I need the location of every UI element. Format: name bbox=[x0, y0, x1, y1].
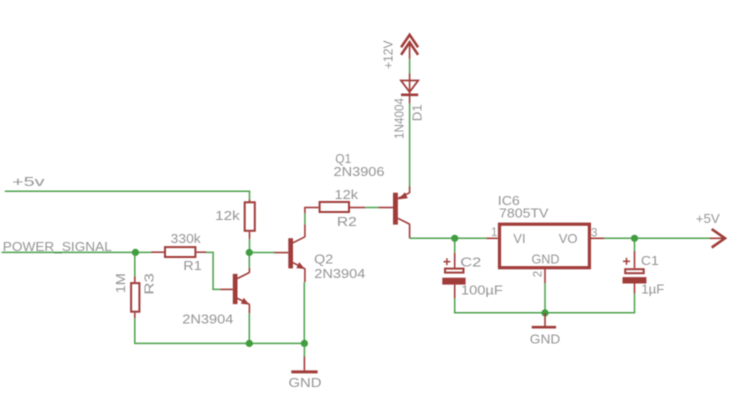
supply symbol +5V (right) bbox=[696, 211, 725, 248]
wire node down to C1 bbox=[634, 238, 636, 251]
wire +12V to diode bbox=[409, 59, 411, 74]
svg-text:+12V: +12V bbox=[381, 40, 396, 69]
svg-text:VI: VI bbox=[513, 231, 525, 246]
wire R2 to Q1 base bbox=[365, 207, 378, 209]
ground GND (left) bbox=[289, 357, 322, 391]
wire POWER_SIGNAL bbox=[2, 251, 152, 253]
svg-text:100µF: 100µF bbox=[461, 283, 503, 298]
pin 2 (GND) bbox=[544, 269, 546, 283]
IC6 7805TV voltage regulator bbox=[486, 193, 604, 283]
wire R1 to base of left transistor bbox=[206, 252, 220, 289]
node junction C2 on input wire bbox=[451, 235, 458, 242]
wire +5v rail bbox=[5, 191, 250, 199]
capacitor C1 1uF bbox=[623, 251, 665, 296]
wire junction down to R3 bbox=[134, 252, 136, 276]
ground GND (right) bbox=[530, 313, 561, 346]
node junction emitter T1 on rail bbox=[246, 340, 253, 347]
svg-text:2N3906: 2N3906 bbox=[334, 164, 385, 179]
svg-text:1N4004: 1N4004 bbox=[392, 98, 407, 139]
svg-text:R1: R1 bbox=[183, 258, 202, 273]
wire left transistor emitter to ground rail bbox=[248, 313, 250, 343]
resistor R1 330k bbox=[151, 231, 206, 273]
wire IC6 pin2 to ground rail bbox=[544, 283, 546, 313]
svg-text:2N3904: 2N3904 bbox=[182, 312, 233, 327]
wire Q1 collector to IC6 input bbox=[410, 237, 487, 239]
diode D1 1N4004 bbox=[392, 73, 425, 139]
svg-text:Q2: Q2 bbox=[314, 252, 333, 267]
capacitor C2 100uF bbox=[442, 253, 503, 298]
node junction GND on rail bbox=[541, 309, 548, 316]
svg-text:D1: D1 bbox=[409, 104, 424, 121]
wire Q2 emitter down to ground rail bbox=[303, 282, 305, 343]
svg-text:12k: 12k bbox=[215, 208, 240, 223]
wire node to Q2 base bbox=[249, 252, 274, 254]
wire rail to GND symbol bbox=[303, 343, 305, 356]
transistor T1 2N3904 (left) bbox=[182, 268, 249, 327]
wire IC6 output bbox=[604, 237, 709, 239]
svg-text:R3: R3 bbox=[141, 273, 156, 295]
svg-text:3: 3 bbox=[591, 228, 597, 240]
pin 1 (VI) bbox=[486, 237, 498, 239]
svg-text:+5v: +5v bbox=[12, 174, 45, 189]
svg-text:1µF: 1µF bbox=[641, 281, 664, 296]
transistor Q2 2N3904 bbox=[274, 224, 365, 282]
resistor R3 1M bbox=[113, 273, 157, 318]
svg-text:1: 1 bbox=[491, 227, 497, 239]
node junction C1 on output wire bbox=[631, 235, 638, 242]
svg-text:R2: R2 bbox=[337, 214, 357, 229]
wire Q2 collector up to R2 bbox=[304, 213, 306, 224]
wire left transistor collector to node bbox=[248, 253, 250, 268]
svg-text:GND: GND bbox=[532, 252, 560, 267]
svg-text:7805TV: 7805TV bbox=[499, 205, 549, 220]
svg-text:GND: GND bbox=[289, 375, 322, 390]
svg-text:2: 2 bbox=[533, 271, 545, 277]
wire C2 to ground rail bbox=[455, 298, 635, 313]
transistor Q1 2N3906 (PNP) bbox=[334, 151, 410, 238]
wire node down to C2 bbox=[454, 238, 456, 253]
supply symbol +12V bbox=[381, 35, 419, 69]
svg-text:1M: 1M bbox=[113, 273, 128, 293]
svg-text:C2: C2 bbox=[460, 255, 481, 270]
wire R3 to ground rail bbox=[135, 318, 305, 343]
resistor 12k (vertical, to +5v) bbox=[215, 199, 255, 239]
resistor R2 12k bbox=[304, 187, 365, 229]
node junction emitter Q2 on rail bbox=[301, 340, 308, 347]
node junction collector/12k/base bbox=[246, 249, 253, 256]
svg-text:2N3904: 2N3904 bbox=[314, 266, 365, 281]
wire diode to Q1 emitter bbox=[409, 103, 411, 186]
svg-text:C1: C1 bbox=[641, 253, 659, 268]
svg-text:330k: 330k bbox=[171, 231, 202, 246]
wire C1 to ground rail bbox=[634, 294, 636, 314]
svg-text:12k: 12k bbox=[335, 187, 359, 202]
wire 12k to node bbox=[249, 239, 251, 253]
node junction POWER_SIGNAL/R3 bbox=[132, 249, 139, 256]
svg-text:+5V: +5V bbox=[696, 211, 720, 226]
pin 3 (VO) bbox=[591, 237, 604, 239]
svg-text:GND: GND bbox=[530, 331, 561, 346]
svg-text:VO: VO bbox=[559, 231, 578, 246]
